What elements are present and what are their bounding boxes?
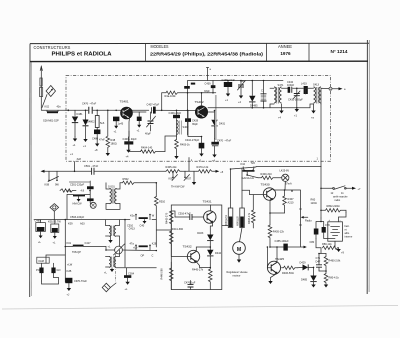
svg-text:R470-2.2k: R470-2.2k bbox=[197, 165, 209, 169]
svg-text:interne: interne bbox=[345, 235, 353, 239]
svg-text:47nF: 47nF bbox=[99, 138, 105, 142]
ground under R403 bbox=[174, 156, 178, 159]
svg-text:K05: K05 bbox=[169, 177, 174, 181]
capacitor C428 39pF bbox=[185, 118, 191, 122]
svg-text:S26-M01-52P: S26-M01-52P bbox=[43, 119, 59, 123]
svg-text:D4F: D4F bbox=[316, 259, 321, 263]
svg-text:R4a-100k: R4a-100k bbox=[165, 94, 177, 98]
oscillator top rail bbox=[188, 81, 284, 136]
capacitor C407 in line bbox=[150, 107, 152, 113]
resistor R80-12k bbox=[316, 239, 339, 250]
outer frame right double line bbox=[366, 40, 368, 294]
capacitor C489 bbox=[36, 223, 46, 232]
svg-text:D4802: D4802 bbox=[87, 120, 95, 124]
resistor R406-56 bbox=[282, 266, 298, 269]
svg-text:K2B: K2B bbox=[67, 269, 72, 273]
resistor R402-100k horizontal above bus bbox=[162, 91, 216, 110]
line PU y219 bbox=[34, 219, 156, 221]
svg-text:TS401: TS401 bbox=[120, 100, 129, 104]
wire to S402 bottom bbox=[165, 136, 177, 152]
svg-text:et: et bbox=[345, 228, 347, 232]
resistor R405-41k on AF bus bbox=[166, 170, 181, 173]
electrolytic PO bbox=[41, 263, 43, 267]
diode D480 zener bbox=[85, 110, 87, 139]
dial pointer diamond bbox=[102, 283, 110, 292]
transistor TS432 bbox=[187, 250, 199, 262]
svg-text:R460-2.8k: R460-2.8k bbox=[329, 259, 341, 263]
svg-text:R405-12k: R405-12k bbox=[273, 230, 285, 234]
resistor R404-140 horizontal bbox=[141, 150, 166, 153]
rail x156 bbox=[155, 183, 157, 197]
ground tuning1 bbox=[110, 236, 112, 240]
header separator 3 bbox=[308, 43, 310, 61]
svg-text:TS430: TS430 bbox=[261, 182, 270, 186]
svg-text:C409-40pF: C409-40pF bbox=[169, 111, 182, 115]
resistor R461-4.7k bbox=[324, 271, 328, 285]
electrolytic GO bbox=[53, 263, 55, 267]
switch bar K bbox=[73, 194, 85, 196]
svg-text:3u8: 3u8 bbox=[77, 157, 82, 161]
svg-text:A03: A03 bbox=[80, 222, 85, 226]
variable capacitor gang bbox=[115, 246, 123, 254]
svg-text:D442: D442 bbox=[215, 251, 222, 255]
svg-text:C476 - 47nF: C476 - 47nF bbox=[82, 102, 97, 106]
svg-text:C417: C417 bbox=[85, 241, 92, 245]
svg-text:TS425: TS425 bbox=[275, 257, 284, 261]
ground tuning2 bbox=[111, 268, 113, 269]
resistor R405-12k vertical bbox=[268, 225, 272, 247]
svg-text:+LW: +LW bbox=[67, 263, 73, 267]
outer frame top line bbox=[30, 42, 369, 44]
resistor R510 on rail bbox=[155, 197, 159, 248]
capacitor C439 bbox=[211, 85, 216, 88]
lower IF rail bbox=[208, 107, 310, 109]
ground S471 bbox=[279, 111, 283, 114]
wires TS401 collector/emitter bbox=[129, 112, 146, 137]
capacitor C441 bbox=[263, 81, 265, 108]
ground mid contacts bbox=[193, 171, 195, 182]
svg-text:R80-12k: R80-12k bbox=[322, 242, 332, 246]
resistor R48 180 vertical bbox=[107, 110, 109, 136]
switch K07 bbox=[184, 171, 190, 180]
svg-text:4.8: 4.8 bbox=[81, 189, 85, 193]
svg-text:R405-41k: R405-41k bbox=[166, 165, 178, 169]
svg-text:K0a: K0a bbox=[130, 214, 135, 218]
svg-text:M30(L2)1: M30(L2)1 bbox=[224, 215, 228, 226]
svg-text:R502: R502 bbox=[123, 177, 130, 181]
svg-text:D429: D429 bbox=[300, 261, 307, 265]
svg-text:180Ω: 180Ω bbox=[111, 142, 117, 146]
coil S402 bbox=[176, 119, 178, 137]
ground R461 bbox=[324, 285, 328, 288]
svg-text:33pF: 33pF bbox=[204, 89, 210, 93]
switch K08 bbox=[48, 171, 59, 181]
svg-text:R48: R48 bbox=[111, 138, 116, 142]
svg-text:K08: K08 bbox=[45, 183, 50, 187]
main RF bus wire bbox=[41, 109, 196, 111]
svg-text:R400-310: R400-310 bbox=[261, 172, 273, 176]
coil L433 black bar bbox=[304, 86, 308, 94]
net 1 drop wire bbox=[188, 158, 190, 172]
AGC thick wire bbox=[215, 95, 217, 140]
drop wire from tuner box to bus bbox=[74, 162, 76, 172]
resistor R400-310 bbox=[258, 176, 282, 179]
svg-text:C410-270pF: C410-270pF bbox=[185, 138, 200, 142]
resistor R442-270 on box edge bbox=[170, 211, 174, 225]
tuning rail x125 bbox=[124, 220, 126, 267]
arrow under bar bbox=[78, 196, 80, 199]
svg-text:radio: radio bbox=[335, 198, 341, 202]
node at box entry bbox=[67, 109, 69, 111]
svg-text:CONSTRUCTEURS: CONSTRUCTEURS bbox=[34, 45, 71, 50]
switch contacts K0a bbox=[136, 215, 150, 220]
svg-text:K01: K01 bbox=[67, 241, 72, 245]
ground TS425 bbox=[268, 281, 272, 284]
volume pot wire to output box bbox=[156, 229, 171, 231]
blob on riser bbox=[184, 86, 190, 89]
svg-text:22RR454/29 (Philips), 22RR454/: 22RR454/29 (Philips), 22RR454/38 (Radiol… bbox=[150, 52, 264, 57]
svg-text:Régulateur vitesse: Régulateur vitesse bbox=[227, 270, 249, 274]
svg-text:S471: S471 bbox=[278, 83, 285, 87]
motor M bbox=[233, 242, 246, 255]
svg-text:N° 1214: N° 1214 bbox=[331, 49, 348, 54]
tuning transformer lower bbox=[109, 257, 111, 268]
wire diamond to mast foot bbox=[42, 95, 47, 108]
svg-text:TH-KW-CW: TH-KW-CW bbox=[171, 185, 185, 189]
svg-text:C470 - 47nF: C470 - 47nF bbox=[217, 139, 232, 143]
svg-text:C970-T0uF: C970-T0uF bbox=[74, 279, 87, 283]
svg-text:R445-27k: R445-27k bbox=[192, 267, 204, 271]
svg-text:D431: D431 bbox=[219, 122, 226, 126]
diode D481 bbox=[74, 110, 76, 136]
svg-text:C428: C428 bbox=[192, 118, 199, 122]
outer frame left double line bbox=[29, 44, 31, 297]
header separator 2 bbox=[266, 43, 268, 61]
svg-text:Radio: Radio bbox=[305, 219, 312, 223]
capacitor blob right of TS401 bbox=[137, 117, 142, 121]
svg-text:D463: D463 bbox=[197, 231, 204, 235]
svg-text:TS402: TS402 bbox=[195, 100, 204, 104]
svg-text:K10: K10 bbox=[241, 162, 246, 166]
svg-text:K09: K09 bbox=[68, 222, 73, 226]
transistor TS431 bbox=[204, 211, 216, 223]
ground under R48 bbox=[106, 153, 110, 156]
svg-text:C455-100uF: C455-100uF bbox=[275, 239, 290, 243]
capacitor C79 bbox=[322, 227, 326, 233]
ground under D481 bbox=[74, 137, 76, 139]
svg-text:C403 - 40pF: C403 - 40pF bbox=[123, 137, 138, 141]
capacitor C438 electrolytic bbox=[227, 81, 229, 83]
antenna mast bbox=[40, 66, 42, 110]
tuning transformer upper bbox=[109, 226, 111, 237]
svg-text:R408-17k: R408-17k bbox=[247, 212, 251, 224]
svg-text:GO: GO bbox=[57, 268, 61, 272]
svg-text:A210: A210 bbox=[288, 200, 295, 204]
header separator 1 bbox=[145, 44, 147, 62]
resistor R408 vertical bbox=[252, 195, 256, 228]
box CAM bbox=[37, 257, 49, 263]
ground under C403 bbox=[126, 150, 130, 153]
svg-text:47a: 47a bbox=[130, 242, 135, 246]
svg-text:87mA: 87mA bbox=[285, 182, 292, 186]
svg-text:OP: OP bbox=[141, 254, 145, 258]
svg-text:C40: C40 bbox=[140, 224, 145, 228]
svg-text:40pF: 40pF bbox=[145, 132, 151, 136]
diode D440 bbox=[251, 81, 253, 96]
lamp L425 bbox=[282, 174, 289, 181]
resistor box 5u6 bbox=[96, 110, 98, 129]
svg-text:C516-47nF: C516-47nF bbox=[178, 212, 191, 216]
wires inside output box bbox=[171, 211, 175, 290]
svg-text:5u6: 5u6 bbox=[100, 121, 105, 125]
svg-text:C80: C80 bbox=[310, 240, 315, 244]
trimmer capacitor osc bbox=[240, 81, 242, 96]
svg-text:batt.: batt. bbox=[345, 224, 350, 228]
ground under C480 bbox=[95, 144, 99, 147]
capacitor C970 bbox=[65, 278, 72, 283]
resistor R446-560 on box edge bbox=[170, 268, 174, 282]
svg-text:A49: A49 bbox=[67, 189, 72, 193]
ground under D480 bbox=[83, 139, 87, 142]
electrolytic column 2 bbox=[241, 168, 243, 208]
switch K11 marche-arret bbox=[321, 186, 353, 190]
svg-text:9W: 9W bbox=[55, 183, 59, 187]
ground S413 bbox=[313, 104, 315, 111]
svg-text:TS431: TS431 bbox=[203, 200, 212, 204]
svg-text:MODELES: MODELES bbox=[151, 44, 169, 49]
thick wire smudge bbox=[69, 181, 90, 183]
svg-text:R446-560: R446-560 bbox=[160, 268, 164, 280]
svg-text:R80-4.1k: R80-4.1k bbox=[329, 276, 340, 280]
capacitor C409 electrolytic on bus bbox=[173, 115, 180, 118]
pickup diamond G bbox=[50, 204, 59, 212]
svg-text:C489: C489 bbox=[35, 219, 42, 223]
svg-text:L433: L433 bbox=[301, 82, 307, 86]
AF transformer S501 bbox=[110, 189, 112, 204]
svg-text:D481: D481 bbox=[77, 112, 84, 116]
svg-text:R442-270: R442-270 bbox=[165, 212, 169, 224]
svg-text:+L9: +L9 bbox=[133, 246, 138, 250]
svg-text:C476-1uF: C476-1uF bbox=[184, 280, 196, 284]
resistor R802-220 bbox=[321, 209, 346, 213]
svg-text:T08-QP: T08-QP bbox=[72, 250, 81, 254]
resistor R502 horizontal bbox=[120, 181, 156, 184]
diode D431 bbox=[214, 111, 216, 139]
switch contact row PO/GO bbox=[136, 246, 150, 251]
svg-text:K02: K02 bbox=[45, 105, 50, 109]
volume potentiometer bbox=[300, 209, 302, 225]
svg-text:C: C bbox=[152, 254, 154, 258]
svg-text:HM-CW: HM-CW bbox=[73, 202, 83, 206]
svg-text:R510: R510 bbox=[159, 200, 166, 204]
right rail from IF bbox=[319, 167, 326, 254]
IF output connector bbox=[329, 87, 332, 90]
svg-text:CAM: CAM bbox=[38, 259, 44, 263]
svg-text:PHILIPS et RADIOLA: PHILIPS et RADIOLA bbox=[52, 51, 112, 57]
svg-text:D4485: D4485 bbox=[250, 104, 258, 108]
svg-text:R441-390: R441-390 bbox=[172, 227, 184, 231]
line AF right segment bbox=[256, 166, 321, 168]
S413 secondary down wire bbox=[320, 104, 322, 167]
resistor R445-27k bbox=[209, 268, 213, 290]
pickup connector circle bbox=[90, 202, 96, 208]
svg-text:43n: 43n bbox=[57, 105, 62, 109]
svg-text:PO: PO bbox=[36, 268, 40, 272]
main tuning rail x65 bbox=[64, 220, 66, 283]
svg-text:R406-56Ω: R406-56Ω bbox=[282, 271, 294, 275]
svg-text:C435-5/65pF: C435-5/65pF bbox=[288, 98, 303, 102]
svg-text:ANNEE: ANNEE bbox=[278, 44, 292, 49]
svg-text:C304: C304 bbox=[128, 271, 135, 275]
capacitor C515 39pF bbox=[87, 198, 94, 201]
capacitor C480 electrolytic bbox=[94, 130, 100, 135]
svg-text:C501-220pF: C501-220pF bbox=[70, 183, 85, 187]
trimmer capacitor bbox=[150, 112, 152, 131]
svg-text:C501 - 47nF: C501 - 47nF bbox=[84, 164, 99, 168]
capacitor C80 bbox=[314, 229, 319, 235]
svg-text:R403-1k: R403-1k bbox=[180, 143, 190, 147]
svg-text:S413: S413 bbox=[313, 83, 320, 87]
resistor R490 horizontal bbox=[60, 189, 76, 192]
capacitor C516 input bbox=[190, 214, 192, 220]
svg-text:T20: T20 bbox=[251, 161, 256, 165]
svg-text:C413: C413 bbox=[129, 227, 136, 231]
svg-text:moteur: moteur bbox=[233, 274, 241, 278]
svg-text:100pF: 100pF bbox=[287, 83, 295, 87]
electrolytic column 1 bbox=[230, 169, 232, 208]
wire TS401 emitter to R404 bbox=[129, 131, 141, 152]
svg-text:C407-47pF: C407-47pF bbox=[147, 103, 160, 107]
svg-text:1976: 1976 bbox=[280, 51, 291, 56]
speaker wire from box edge bbox=[222, 225, 229, 227]
svg-text:C503-100pF: C503-100pF bbox=[70, 215, 85, 219]
loop wire tuning caps bbox=[42, 255, 66, 284]
terminal line to top edge bbox=[207, 68, 209, 81]
svg-text:R404-140: R404-140 bbox=[141, 146, 153, 150]
resistor R470-2.2k on AF bus bbox=[197, 170, 215, 173]
dash-dot tuning link bbox=[115, 254, 117, 283]
arrow to terminal a bbox=[332, 88, 340, 90]
capacitor C476 47nF bbox=[89, 107, 92, 114]
svg-text:120Ω: 120Ω bbox=[311, 201, 317, 205]
svg-text:C: C bbox=[261, 89, 263, 93]
svg-text:M: M bbox=[237, 247, 241, 253]
coil S26 lead-in bbox=[47, 111, 58, 113]
capacitor K010 bbox=[51, 224, 59, 232]
capacitor C403 40pF bar bbox=[124, 141, 133, 144]
svg-text:L425-6V: L425-6V bbox=[280, 169, 290, 173]
antenna diamond symbol bbox=[46, 86, 55, 97]
diode D442 bbox=[207, 250, 213, 256]
capacitor blob at TS401 base bbox=[113, 117, 119, 122]
svg-text:M80(L)8: M80(L)8 bbox=[235, 216, 239, 226]
dashed tuner enclosure bbox=[66, 76, 331, 162]
ground battery rail bbox=[338, 248, 340, 249]
series capacitor C501 on bus bbox=[92, 168, 94, 175]
svg-text:39pF: 39pF bbox=[192, 122, 198, 126]
resistor R403 vertical bbox=[175, 136, 179, 156]
left arrow terminal of AF bus bbox=[41, 170, 45, 173]
svg-text:alim.: alim. bbox=[345, 231, 351, 235]
resistor R460-2.8k bbox=[324, 254, 328, 272]
header bottom rule bbox=[30, 60, 368, 62]
battery box bbox=[328, 222, 343, 241]
svg-text:D485: D485 bbox=[301, 278, 308, 282]
svg-text:R802-220Ω: R802-220Ω bbox=[327, 204, 340, 208]
svg-text:C439: C439 bbox=[205, 82, 212, 86]
switch K05 bbox=[172, 171, 178, 180]
svg-text:S-501: S-501 bbox=[108, 185, 115, 189]
svg-text:TS432: TS432 bbox=[183, 244, 192, 248]
svg-text:K2B: K2B bbox=[152, 242, 157, 246]
bottom faint card edge bbox=[2, 306, 398, 310]
svg-text:K07: K07 bbox=[187, 177, 192, 181]
svg-text:1u43: 1u43 bbox=[118, 122, 124, 126]
trimmer C435 5/65pF bbox=[296, 88, 298, 93]
output stage box bbox=[171, 205, 222, 290]
svg-text:C480: C480 bbox=[92, 137, 99, 141]
wire TS402 region bbox=[202, 112, 215, 118]
svg-text:C79: C79 bbox=[325, 223, 330, 227]
ground C435 bbox=[296, 108, 298, 109]
resistor R407 vertical bbox=[283, 190, 287, 213]
AF bus wire bbox=[44, 167, 256, 171]
